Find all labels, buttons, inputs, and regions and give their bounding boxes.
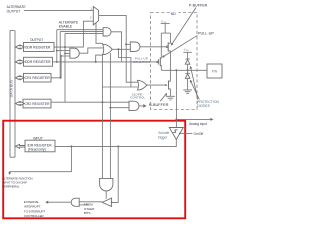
- svg-text:ND: ND: [171, 12, 177, 16]
- arrowhead N-buffer label: [165, 93, 167, 96]
- label PULL-UP CONDITION: [133, 56, 150, 64]
- wire to AND2 input1: [126, 43, 130, 45]
- bus arrow ODR: [15, 45, 24, 49]
- and-gate bottom interrupt (pointing down): [100, 178, 113, 191]
- node diode tap: [187, 69, 189, 71]
- arrowhead analog input: [210, 118, 213, 121]
- data bus bar: [10, 31, 15, 158]
- wire external interrupt arrow: [48, 201, 72, 203]
- svg-text:EXTERNAL: EXTERNAL: [24, 200, 40, 204]
- arrowhead alt function down: [8, 172, 11, 175]
- register ODR: [24, 43, 55, 52]
- and-gate AND1: [103, 28, 111, 36]
- node triangle input: [111, 202, 113, 204]
- pin box: [207, 64, 222, 78]
- wire from-other-bits riser: [112, 146, 119, 202]
- node alt function tap: [70, 145, 72, 147]
- bus arrow IDR: [15, 144, 25, 148]
- svg-text:On/Off: On/Off: [194, 132, 204, 136]
- arrowhead nmos gate: [165, 84, 167, 86]
- wire OR1 output to AND2: [112, 48, 130, 50]
- svg-text:N-BUFFER: N-BUFFER: [149, 102, 169, 107]
- label EXTERNAL INTERRUPT TO INTERRUPT CONTROLLER: [24, 200, 46, 218]
- wire AND3 input2: [110, 107, 129, 109]
- wire AND1 input rails: [57, 30, 103, 34]
- arrowhead AND3 output: [143, 104, 146, 108]
- schmitt trigger: [169, 128, 183, 140]
- svg-text:CONTROLLER: CONTROLLER: [24, 214, 44, 218]
- svg-text:INPUT TO ON-CHIP: INPUT TO ON-CHIP: [2, 181, 27, 185]
- node analog tap: [175, 118, 177, 120]
- label Schmitt trigger: [158, 131, 169, 140]
- node on/off: [179, 133, 181, 135]
- label ALTERNATE ENABLE: [59, 20, 79, 28]
- node AND0 in1 tap: [56, 50, 58, 52]
- svg-text:ALTERNATE FUNCTION: ALTERNATE FUNCTION: [2, 177, 32, 181]
- node from-other-bits tap: [117, 145, 119, 147]
- svg-text:CONTROL: CONTROL: [130, 96, 145, 100]
- wire triangle apex to AND input: [79, 201, 102, 203]
- power VDD diodes: [183, 47, 191, 59]
- wire ODR out to mux 0: [54, 21, 93, 47]
- wire pin line: [161, 69, 207, 71]
- node AND0 in3: [60, 55, 62, 57]
- svg-text:DATA BUS: DATA BUS: [10, 79, 14, 97]
- wire AND0 in2 from CR2 riser: [65, 52, 70, 54]
- arrowhead P-buffer label: [171, 43, 174, 46]
- wire DDR riser to AND1: [56, 30, 58, 62]
- wire P-buffer label arrow: [172, 8, 196, 45]
- svg-text:CR1 REGISTER: CR1 REGISTER: [25, 76, 51, 80]
- wire AND3 output: [139, 105, 143, 107]
- bus arrow DDR: [15, 60, 24, 64]
- bus arrow CR1: [15, 76, 24, 80]
- and-gate external interrupt (pointing left): [71, 198, 79, 206]
- wire pull-up label arrow: [164, 35, 198, 56]
- svg-text:Schmitt: Schmitt: [158, 131, 169, 135]
- wire protection label arrow upper: [191, 68, 198, 100]
- node AND3 input2 tap: [109, 107, 111, 109]
- svg-text:P-BUFFER: P-BUFFER: [189, 4, 208, 8]
- wire AND1 output down to pull-up rail: [111, 32, 121, 62]
- wire AND2 output to P-buffer gate: [140, 46, 166, 48]
- wire AND lower input stub: [79, 204, 88, 206]
- register CR1: [24, 73, 52, 82]
- wire VDD node rail: [161, 32, 170, 34]
- svg-text:INTERRUPT: INTERRUPT: [24, 205, 41, 209]
- transistor N-buffer nmos: [169, 70, 171, 96]
- wire 87 rail to OR2: [102, 86, 137, 88]
- svg-text:BITS: BITS: [84, 211, 91, 215]
- wire DDR pull-up condition rail: [53, 61, 157, 63]
- arrowhead protection upper: [190, 66, 193, 69]
- node AND0 in2 tap: [64, 53, 66, 55]
- node OR1 out tap: [117, 48, 119, 50]
- register CR2: [23, 99, 51, 108]
- wire N-buffer label arrow: [160, 94, 166, 101]
- wire CR2 riser to bottom AND: [101, 55, 103, 179]
- wire CR2 riser to AND1: [64, 33, 66, 102]
- power VDD pbuffer: [161, 19, 170, 33]
- transistor pull-up pmos: [157, 33, 162, 70]
- diode protection lower: [185, 70, 190, 90]
- wire analog input arrow: [176, 118, 210, 120]
- red highlight box input section: [3, 121, 185, 219]
- svg-text:PIN: PIN: [212, 69, 218, 73]
- wire CR2 to AND3 input1: [51, 101, 129, 103]
- svg-text:DIODES: DIODES: [197, 104, 210, 108]
- wire AND0 output to OR1: [79, 48, 103, 53]
- and-gate AND2: [130, 42, 140, 51]
- svg-text:CONDITION: CONDITION: [133, 60, 150, 64]
- label PROTECTION DIODES: [197, 100, 219, 108]
- and-gate AND0: [70, 48, 79, 58]
- ground diodes: [183, 90, 192, 93]
- wire protection label arrow lower: [191, 82, 199, 100]
- label SLOPE CONTROL: [130, 92, 145, 99]
- node DDR tap: [56, 61, 58, 63]
- node input tap: [175, 69, 177, 71]
- svg-text:OUTPUT: OUTPUT: [7, 10, 21, 14]
- label ALTERNATE OUTPUT: [7, 5, 27, 14]
- ground nmos: [166, 96, 175, 100]
- or-gate OR2: [138, 80, 147, 90]
- wire AND0 in1 from DDR riser: [57, 50, 70, 52]
- svg-text:PERIPHERAL: PERIPHERAL: [2, 184, 20, 188]
- node ODR cross: [64, 46, 66, 48]
- wire OR2 output to N-buffer gate: [147, 84, 166, 86]
- svg-text:TO INTERRUPT: TO INTERRUPT: [24, 209, 46, 213]
- wire second riser to bottom AND: [109, 108, 111, 179]
- wire mux output riser to OR2: [99, 15, 138, 82]
- wire bottom AND output: [105, 191, 107, 199]
- wire on/off to schmitt: [180, 132, 192, 134]
- svg-text:ENABLE: ENABLE: [59, 24, 73, 28]
- svg-text:ALTERNATE: ALTERNATE: [7, 5, 27, 9]
- transistor P-buffer pmos: [166, 33, 170, 70]
- node mux-out to AND2: [125, 43, 127, 45]
- wire input tap down to schmitt: [175, 70, 177, 127]
- register DDR: [24, 57, 53, 66]
- label FROM OTHER BITS: [84, 203, 95, 216]
- and-gate AND3: [129, 101, 139, 110]
- arrowhead external interrupt: [45, 201, 48, 204]
- node CR2 tap: [101, 101, 103, 103]
- mux 2to1: [93, 7, 98, 25]
- wire OR1 tap down across: [118, 49, 130, 87]
- register IDR (read only): [25, 140, 55, 152]
- node CR1 rail tap: [60, 77, 62, 79]
- label ND on dashed edge: [170, 11, 178, 17]
- buffer triangle: [102, 198, 111, 206]
- wire OR1 input3 riser from DDR rail: [96, 55, 103, 62]
- svg-text:PULL-UP: PULL-UP: [198, 32, 214, 36]
- wire AND0 in3 riser: [61, 56, 70, 78]
- bus arrow CR2: [15, 102, 24, 106]
- svg-text:(Read only): (Read only): [28, 147, 46, 151]
- svg-text:trigger: trigger: [158, 136, 168, 140]
- wire alternate output to mux input 1: [24, 9, 93, 11]
- arrowhead pull-up label: [162, 55, 165, 57]
- svg-text:CR2 REGISTER: CR2 REGISTER: [24, 102, 50, 106]
- svg-text:Analog input: Analog input: [189, 122, 207, 126]
- wire CR1 riser to AND1: [51, 32, 61, 78]
- svg-text:DDR REGISTER: DDR REGISTER: [25, 60, 51, 64]
- wire schmitt output to IDR line: [55, 140, 176, 147]
- wire alternate function input: [10, 146, 72, 172]
- dashed output-driver box: [151, 13, 198, 110]
- or-gate OR1: [103, 44, 113, 55]
- node OR1-in3 tap on DDR rail: [95, 61, 97, 63]
- diode protection upper: [185, 59, 190, 70]
- arrowhead protection lower: [190, 80, 193, 83]
- svg-text:OUTPUT: OUTPUT: [30, 38, 43, 42]
- wire mux select down to OR1: [96, 23, 103, 43]
- wire OR1 bottom tap down to AND3 input2: [109, 53, 111, 108]
- svg-text:ODR REGISTER: ODR REGISTER: [25, 45, 51, 49]
- label ALTERNATE FUNCTION INPUT TO ON-CHIP PERIPHERAL: [2, 177, 32, 189]
